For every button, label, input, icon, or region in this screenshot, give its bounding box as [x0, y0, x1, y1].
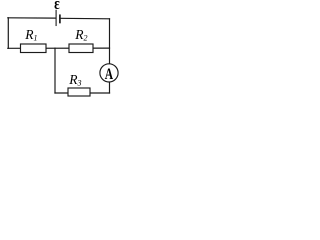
svg-text:ε: ε [54, 0, 60, 14]
svg-text:A: A [105, 66, 113, 83]
